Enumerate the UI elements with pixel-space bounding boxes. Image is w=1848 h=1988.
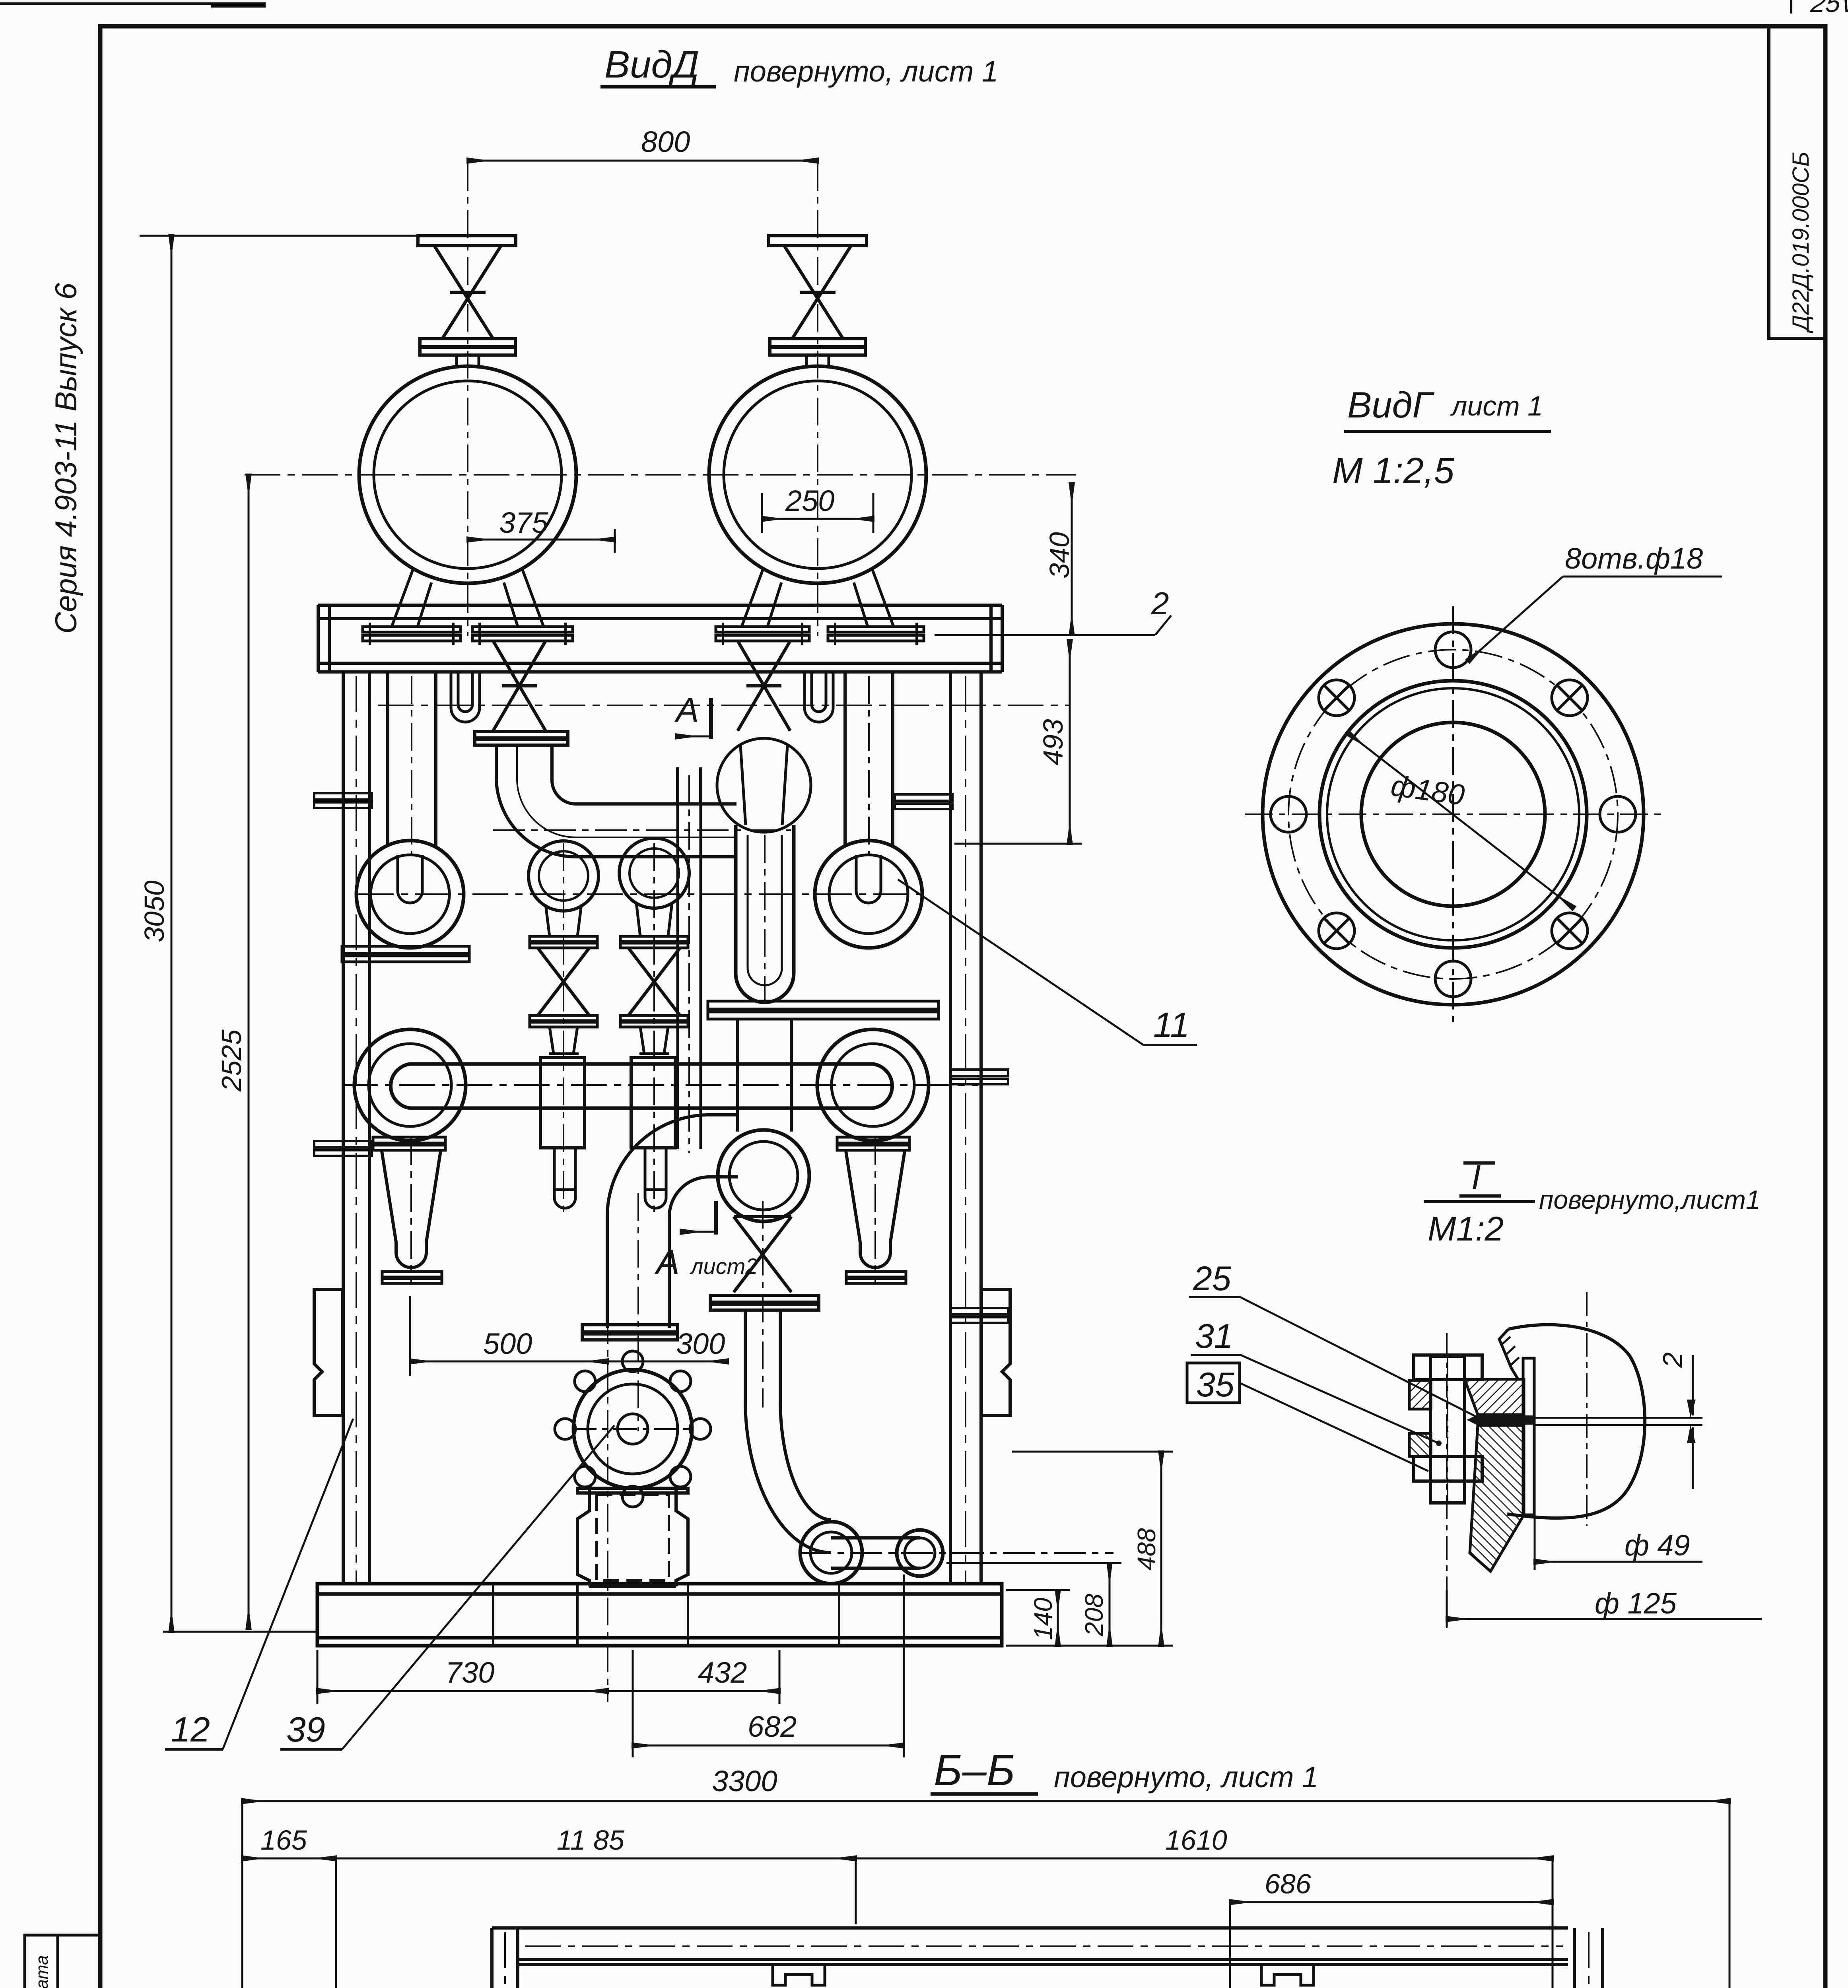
nozzle transition cone 2 xyxy=(742,568,894,627)
valve V1 handwheel bar xyxy=(418,236,516,246)
drain column 2 reducer xyxy=(636,903,672,936)
A riser centerline xyxy=(688,775,690,1153)
svg-text:375: 375 xyxy=(499,506,548,539)
dimension 165 xyxy=(242,1858,336,1860)
bolt hole SW crossed xyxy=(1319,913,1354,949)
svg-text:488: 488 xyxy=(1132,1528,1161,1571)
dimension 1610 xyxy=(856,1858,1553,1860)
left frame post xyxy=(343,672,369,1584)
valve under header A bowtie xyxy=(493,641,546,731)
svg-text:3300: 3300 xyxy=(712,1765,777,1798)
mid row right ring xyxy=(817,1029,929,1141)
svg-text:ф 49: ф 49 xyxy=(1625,1529,1690,1562)
bolt hole top xyxy=(1435,632,1471,668)
drain column 2 cone xyxy=(639,1027,669,1054)
svg-text:2: 2 xyxy=(1657,1352,1688,1368)
svg-text:11 85: 11 85 xyxy=(557,1825,625,1856)
svg-text:М1:2: М1:2 xyxy=(1428,1210,1504,1248)
dimension 3050 xyxy=(171,235,173,1632)
detail I left lug hatched upper xyxy=(1409,1380,1431,1409)
dimension 1185 xyxy=(336,1858,856,1860)
svg-text:повернуто,лист1: повернуто,лист1 xyxy=(1539,1185,1761,1214)
header flange plate 2 xyxy=(472,627,573,641)
detail I clamp plate xyxy=(1523,1358,1534,1515)
valve V2 bowtie xyxy=(784,246,851,339)
mid row left ring xyxy=(354,1029,466,1141)
svg-text:лист2: лист2 xyxy=(690,1254,758,1279)
svg-text:11: 11 xyxy=(1153,1005,1189,1044)
detail I bolt axis centerline xyxy=(1446,1333,1448,1628)
svg-text:340: 340 xyxy=(1044,532,1075,579)
svg-text:ф180: ф180 xyxy=(1389,769,1467,812)
svg-text:М 1:2,5: М 1:2,5 xyxy=(1332,450,1455,491)
svg-text:165: 165 xyxy=(260,1825,307,1856)
right downcomer pipe xyxy=(845,672,893,847)
u-pocket right under header xyxy=(804,672,833,722)
pump hub xyxy=(618,1414,648,1444)
flange raised face xyxy=(1319,681,1587,948)
flange bolt circle xyxy=(1288,650,1618,979)
svg-text:лист 1: лист 1 xyxy=(1450,390,1543,421)
dimension 2 gap xyxy=(1692,1355,1694,1415)
pump inlet elbow xyxy=(607,1115,738,1328)
u-pocket left under header xyxy=(451,672,480,722)
detail I nut xyxy=(1414,1456,1482,1481)
drain column 1 reducer xyxy=(546,905,581,936)
lower valve flange pair xyxy=(710,1295,819,1310)
dimension 682 xyxy=(633,1745,904,1747)
svg-text:500: 500 xyxy=(483,1327,532,1360)
pump casing bolts scallop xyxy=(555,1351,711,1507)
svg-text:25: 25 xyxy=(1193,1260,1232,1298)
bolt hole SE crossed xyxy=(1552,913,1588,949)
drain valve 1 bowtie xyxy=(538,948,589,1015)
header channel beam xyxy=(318,605,1002,672)
mid zone centerline a xyxy=(378,705,1070,706)
svg-text:493: 493 xyxy=(1038,719,1069,765)
callout 2 leader xyxy=(935,634,1155,636)
detail I bolt head xyxy=(1414,1355,1482,1380)
svg-text:повернуто, лист 1: повернуто, лист 1 xyxy=(734,55,998,88)
dimension 3300 xyxy=(242,1800,1729,1802)
drain column 2 lower flange pair xyxy=(620,1015,688,1027)
beam hanger clip 2 xyxy=(1261,1965,1314,1985)
svg-text:ВидД: ВидД xyxy=(604,43,699,86)
outlet elbow ring xyxy=(800,1522,862,1584)
svg-text:3050: 3050 xyxy=(139,880,170,942)
valve V2 centerline xyxy=(817,163,818,636)
adjacent sheet artifact top-left xyxy=(0,4,266,6)
header flange plate ticks xyxy=(370,623,917,645)
right side bracket xyxy=(981,1289,1010,1415)
detail I gasket gap lines xyxy=(1533,1417,1702,1419)
mid zone centerline b xyxy=(493,829,791,831)
base skid band xyxy=(317,1584,1002,1646)
valve V2 bonnet flanges xyxy=(770,339,865,355)
left post B-B xyxy=(492,1928,518,1988)
dimension 300 xyxy=(608,1361,728,1363)
funnel right flange plate xyxy=(837,1137,909,1150)
svg-text:250: 250 xyxy=(785,484,834,517)
valve V1 centerline xyxy=(467,163,468,636)
valve under header A lower flange xyxy=(475,732,568,745)
detail I heading xyxy=(1471,1158,1481,1196)
svg-text:300: 300 xyxy=(676,1327,725,1360)
svg-text:8отв.ф18: 8отв.ф18 xyxy=(1565,542,1703,575)
pipe nozzle circle 1 xyxy=(359,366,576,583)
detail I left lug hatched lower xyxy=(1409,1433,1431,1456)
svg-text:2: 2 xyxy=(1151,586,1169,621)
u-bend row centerline xyxy=(358,893,927,895)
header flange plate 3 xyxy=(716,627,809,641)
stamp labels rotated xyxy=(32,1955,52,1988)
top-right document number box xyxy=(1769,26,1825,338)
outlet end ring xyxy=(897,1530,943,1576)
detail I lower flange wedge hatched xyxy=(1470,1425,1524,1571)
right frame post xyxy=(950,672,981,1584)
svg-text:800: 800 xyxy=(641,125,690,158)
flange bore xyxy=(1361,722,1545,906)
center elbow ring xyxy=(718,1130,809,1221)
dimension 3050 top tie xyxy=(140,235,418,237)
left post stub flange b xyxy=(314,1141,372,1156)
drain column 2 stem xyxy=(645,1148,666,1190)
nozzle transition cone 1 xyxy=(392,568,544,627)
mid horizontal pipe run xyxy=(391,1064,892,1108)
svg-text:ВидГ: ВидГ xyxy=(1347,385,1434,425)
elbow pipe from valve A down right xyxy=(496,745,736,857)
dimension 208 xyxy=(1109,1563,1111,1646)
dimension phi125 xyxy=(1446,1590,1448,1627)
drain column 1 stem xyxy=(554,1148,575,1190)
center riser lower pipe xyxy=(738,1020,791,1132)
svg-text:Д22Д.019.000СБ: Д22Д.019.000СБ xyxy=(1788,151,1814,334)
drain column 1 centerline xyxy=(563,843,564,1217)
dimension 2525 xyxy=(248,475,250,1629)
drain column 1 tip xyxy=(554,1190,575,1208)
drain column 2 tip xyxy=(645,1190,666,1208)
valve V1 bowtie xyxy=(434,246,501,339)
lower valve bowtie xyxy=(734,1217,791,1292)
svg-text:2525: 2525 xyxy=(216,1029,247,1092)
flange outer rim xyxy=(1263,624,1644,1005)
outlet centerline xyxy=(799,1552,1113,1554)
nozzles horizontal centerline xyxy=(245,474,1076,476)
bolt hole left xyxy=(1271,796,1306,832)
header flange plate 4 xyxy=(828,627,924,641)
funnel left cone xyxy=(382,1151,441,1268)
dimension 250 xyxy=(762,518,873,520)
svg-text:682: 682 xyxy=(748,1710,797,1743)
right post stub flange b xyxy=(950,1070,1008,1084)
outlet horizontal pipe xyxy=(831,1538,920,1568)
drain column 1 upper flange pair xyxy=(530,936,597,948)
dimension 375 xyxy=(468,539,615,541)
dimension 500 xyxy=(410,1361,608,1363)
pipe nozzle circle 2 xyxy=(709,366,926,583)
svg-text:432: 432 xyxy=(698,1656,747,1689)
dimension 340 xyxy=(1071,483,1073,635)
left downcomer pipe xyxy=(388,672,436,847)
left post support bar xyxy=(342,946,469,962)
detail I upper flange wedge hatched xyxy=(1465,1379,1524,1415)
svg-text:Подп. и дата: Подп. и дата xyxy=(32,1955,52,1988)
funnel right catch plate xyxy=(846,1272,906,1283)
valve V1 stem xyxy=(457,355,479,368)
valve V2 stem xyxy=(806,355,829,368)
dimension 493 xyxy=(1069,640,1071,844)
svg-text:повернуто, лист 1: повернуто, лист 1 xyxy=(1054,1761,1318,1794)
valve under header B bowtie xyxy=(738,641,790,731)
drain column 2 centerline xyxy=(653,843,655,1217)
right post B-B xyxy=(1574,1928,1603,1988)
dimension 488 xyxy=(1160,1452,1162,1646)
right return bend xyxy=(815,841,922,948)
svg-text:Серия 4.903-11 Выпуск 6: Серия 4.903-11 Выпуск 6 xyxy=(49,283,83,634)
svg-text:ф 125: ф 125 xyxy=(1595,1587,1677,1620)
flange view centerlines xyxy=(1245,606,1662,1024)
svg-text:Б–Б: Б–Б xyxy=(934,1746,1015,1795)
svg-text:730: 730 xyxy=(445,1656,494,1689)
beam hanger clip 1 xyxy=(773,1965,825,1985)
top frame beam B-B xyxy=(492,1928,1568,1965)
drain column 1 cone xyxy=(549,1027,579,1054)
bolt hole NE crossed xyxy=(1552,680,1588,716)
dimension 140 xyxy=(1057,1590,1059,1646)
pump inlet flange xyxy=(582,1325,678,1340)
drain column 1 lower flange pair xyxy=(530,1015,597,1027)
drain valve 2 bowtie xyxy=(628,948,680,1015)
pump casing ring xyxy=(573,1370,692,1488)
left post stub flange a xyxy=(314,793,372,808)
detail I shell notch xyxy=(1499,1329,1518,1380)
right post stub flange a xyxy=(895,794,952,809)
valve V1 bonnet flanges xyxy=(420,339,515,355)
funnel left catch plate xyxy=(382,1272,442,1283)
pump pedestal xyxy=(577,1488,688,1586)
left margin stamp boxes xyxy=(25,1935,100,1988)
riser pipe with A marker xyxy=(678,767,701,804)
base skid joint ticks xyxy=(493,1584,839,1646)
valve under header B outlet cone xyxy=(740,745,787,825)
right post stub flange c xyxy=(950,1308,1008,1323)
outlet elbow down-right xyxy=(745,1400,831,1553)
detail I stud tail xyxy=(1430,1481,1465,1503)
dimension 800 xyxy=(468,160,818,162)
drain column 1 top ring xyxy=(529,841,599,911)
bolt hole bottom xyxy=(1435,961,1471,997)
svg-text:А: А xyxy=(654,1242,680,1281)
funnel left flange plate xyxy=(373,1137,445,1150)
valve V2 handwheel bar xyxy=(769,236,867,246)
drain column 1 barrel xyxy=(540,1058,585,1148)
detail I pipe shell curve xyxy=(1507,1325,1645,1518)
left side bracket xyxy=(314,1289,343,1415)
center main riser pipe wide xyxy=(736,825,794,973)
valve under header B body dome xyxy=(717,738,811,832)
svg-text:208: 208 xyxy=(1080,1594,1108,1637)
svg-text:25V: 25V xyxy=(1809,0,1848,18)
svg-text:35: 35 xyxy=(1196,1366,1235,1404)
svg-text:А: А xyxy=(674,691,699,729)
svg-text:31: 31 xyxy=(1195,1317,1233,1355)
left return bend xyxy=(356,841,464,948)
drain column 2 barrel xyxy=(631,1058,675,1148)
lower valve outlet pipe xyxy=(745,1310,780,1400)
dimension phi180 diagonal xyxy=(1348,733,1574,908)
adjacent sheet artifact top-right xyxy=(1790,0,1792,14)
center riser u-bottom xyxy=(736,973,794,1002)
bolt hole NW crossed xyxy=(1319,680,1354,716)
bolt hole right xyxy=(1600,796,1636,832)
funnel right cone xyxy=(846,1151,905,1268)
svg-text:39: 39 xyxy=(286,1710,325,1749)
dimension phi49 xyxy=(1534,1515,1536,1570)
svg-text:686: 686 xyxy=(1265,1868,1311,1899)
drain column 2 top ring xyxy=(619,838,689,908)
dimension 730 xyxy=(317,1690,608,1692)
dimension 432 xyxy=(608,1690,779,1692)
detail I weld throat solid xyxy=(1467,1415,1533,1425)
svg-text:140: 140 xyxy=(1029,1598,1057,1640)
detail I bolt shank xyxy=(1430,1356,1465,1503)
A riser pipe extension xyxy=(678,804,701,1149)
dimension 686 xyxy=(1230,1901,1553,1903)
drain column 2 upper flange pair xyxy=(620,936,688,948)
header flange plate 1 xyxy=(363,627,461,641)
right post support bar xyxy=(708,1001,939,1019)
svg-text:12: 12 xyxy=(171,1710,210,1749)
detail I pipe centerline vertical xyxy=(1586,1292,1588,1526)
svg-text:1610: 1610 xyxy=(1165,1825,1227,1856)
